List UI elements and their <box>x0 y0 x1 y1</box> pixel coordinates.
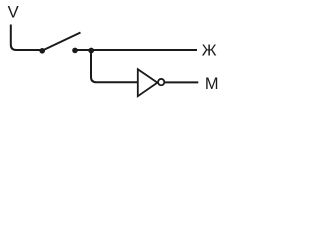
junction dot <box>88 48 94 54</box>
switch right contact dot <box>72 48 78 54</box>
inverter bubble <box>158 79 164 85</box>
wire from V down to switch <box>11 25 41 51</box>
svg-text:М: М <box>205 75 219 93</box>
wire to node M <box>165 81 198 83</box>
inverter triangle <box>138 69 158 96</box>
switch blade <box>43 33 81 51</box>
wire branch down to inverter <box>91 51 137 83</box>
svg-text:V: V <box>8 2 19 21</box>
switch left contact dot <box>39 48 45 54</box>
svg-text:Ж: Ж <box>202 43 217 60</box>
wire to node Zh <box>75 49 197 51</box>
